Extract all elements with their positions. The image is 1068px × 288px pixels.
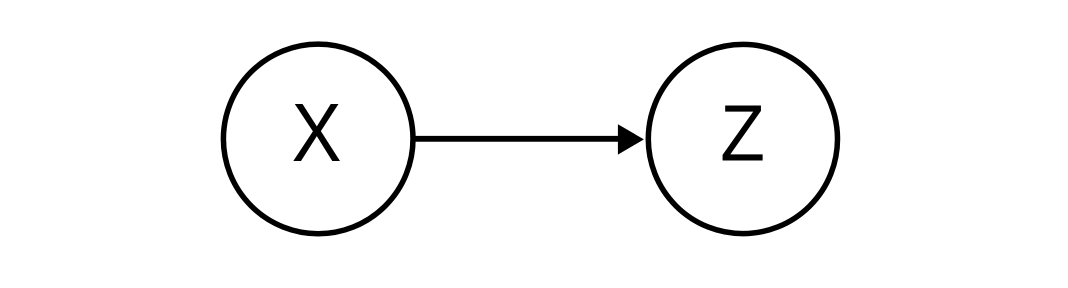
svg-text:X: X [292, 85, 342, 178]
node Z circle [648, 44, 837, 233]
node X circle [223, 44, 413, 234]
wire arrow shaft X to Z [414, 136, 620, 142]
svg-text:Z: Z [720, 89, 765, 178]
arrowhead [618, 124, 644, 154]
